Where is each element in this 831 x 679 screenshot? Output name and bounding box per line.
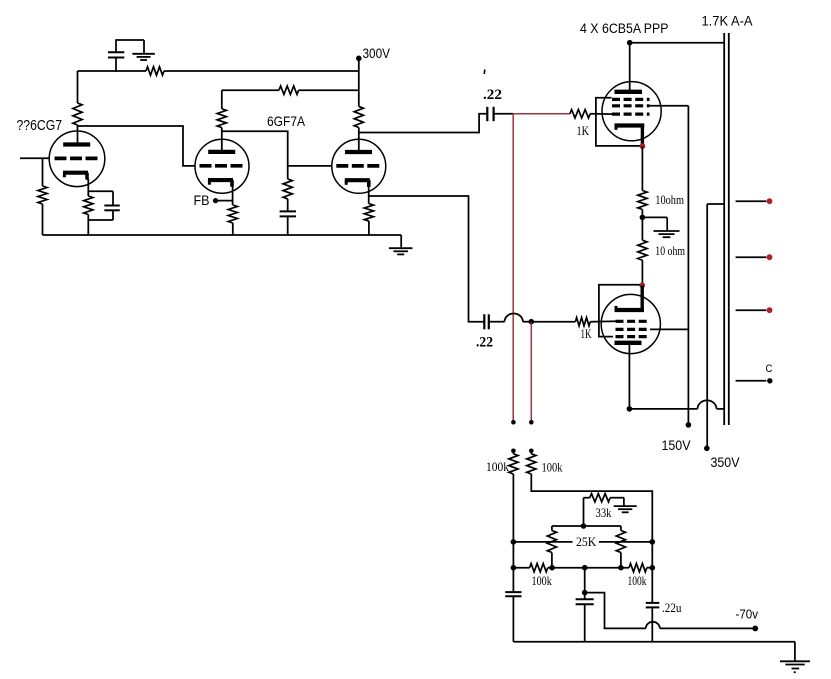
node grid feed 2 [529,420,534,425]
wire V4 beam plates to cathode [596,98,640,146]
tube V4 beam plates [612,98,650,101]
svg-text:100k: 100k [628,574,648,588]
resistor 100k bias left [530,564,548,572]
wire secondary tap 1 [736,200,767,202]
svg-text:1K: 1K [577,123,590,138]
resistor 10ohm upper [638,191,647,210]
wire 33k to wiper [583,498,585,526]
transformer T1 secondary line [728,33,730,425]
tube V2 6GF7A-a cathode [208,178,233,182]
node track right [650,539,656,545]
wire V5 beam plates to cathode [599,285,640,337]
wire V4 screen lead [650,105,689,107]
svg-text:100k: 100k [486,460,510,474]
svg-text:150V: 150V [662,437,692,453]
wire V3 plate to coupling cap C1 [359,114,487,133]
capacitor bias left [505,591,521,593]
node -70v [752,626,758,632]
resistor 100k grid 1 [512,451,514,454]
wire V1 anode lead [77,125,79,145]
svg-text:.22: .22 [483,87,502,103]
tube V4 screen g2 [612,104,650,107]
wire B+ branch to V2 [222,89,279,91]
svg-text:10 ohm: 10 ohm [655,244,685,258]
capacitor B+ filter [115,58,117,72]
transformer T1 primary line [723,33,725,425]
wire 300V vertical [358,58,360,106]
capacitor bias middle [584,568,586,600]
node V5 cathode (red) [639,282,645,288]
wire wiper bar [552,525,621,527]
wire secondary tap 3 [736,309,767,311]
ground (33k) [623,498,625,506]
svg-text:350V: 350V [711,454,741,470]
node tap 3 (red) [767,307,773,313]
svg-text:6GF7A: 6GF7A [267,113,306,129]
wire -70v (with hop) [660,627,755,629]
svg-text:C: C [766,363,773,375]
resistor V1 plate load [77,71,79,103]
svg-text:300V: 300V [363,46,391,61]
wire 100k-2 to right side [531,474,652,603]
tube V5 cathode [641,286,644,311]
wire bias ground rail [513,641,795,643]
tube V2 6GF7A-a grid [200,164,244,168]
wire V1 cathode [86,173,88,181]
wire ground rail [43,234,402,236]
wire C2 to 1K [531,321,575,323]
tube V1 ??6CG7 cathode [63,171,88,175]
tube V5 plate [615,341,642,345]
wire V4 anode [629,43,631,92]
potentiometer 25K right half [616,531,625,553]
resistor V1 grid [38,186,47,204]
wire red C1 out [513,113,570,115]
tube V1 ??6CG7 grid [55,157,99,161]
node -70v feed [582,590,588,596]
resistor B+ branch [279,86,299,94]
wire V4 cathode down [641,146,643,190]
wire V2 anode to divider junction [222,131,332,166]
resistor V2 cathode [228,205,237,223]
svg-text:.22u: .22u [662,601,682,615]
tube V1 ??6CG7 envelope [49,131,105,187]
svg-text:4 X 6CB5A PPP: 4 X 6CB5A PPP [580,21,669,36]
wire C2 out hop over red [505,314,523,322]
tube V2 6GF7A-a envelope [195,139,249,193]
wire screen 150V line [687,106,689,425]
wire V4 anode to transformer [630,42,724,44]
svg-text:10ohm: 10ohm [655,193,684,207]
resistor V3 cathode [364,204,373,221]
svg-text:33k: 33k [596,506,613,520]
node 300V [356,56,362,62]
node C2 out [529,319,535,325]
tube V3 6GF7A-b envelope [332,139,386,193]
node cathode center [640,215,646,221]
svg-text:1.7K A-A: 1.7K A-A [702,13,754,28]
node 100k top 2 [529,449,534,454]
node tap 1 (red) [767,198,773,204]
capacitor C1 .22 [486,107,488,121]
node track left [511,539,517,545]
wire bias bottom line [513,567,529,569]
resistor 10 ohm lower [641,217,643,240]
ground (left rail) [400,235,402,248]
wire V1 anode to V2 grid [78,126,196,166]
tube V4 plate [615,90,643,94]
wire center tap [707,203,724,205]
node bias line junctions [511,565,517,571]
resistor 1K grid stopper lower [575,318,590,326]
svg-text:25K: 25K [576,535,596,549]
wire 25K track [513,541,572,543]
wire input [20,157,50,159]
node 150V [686,422,692,428]
wire V5 anode to transformer (with hop) [629,408,697,410]
node 100k top 1 [511,449,516,454]
wire V3 cathode to coupling cap C2 [369,196,484,322]
ground (top filter) [132,53,155,55]
tube V3 6GF7A-b plate [345,150,372,154]
wire red C2 down [530,322,532,421]
wire secondary tap 2 [736,256,767,258]
node V4 anode [627,40,633,46]
wire V5 anode down [628,343,630,409]
svg-text:.22: .22 [476,335,493,351]
wire filter cap to ground [115,39,144,41]
resistor 1K grid stopper upper [570,110,590,118]
svg-text:100k: 100k [532,574,553,588]
wire V5 screen lead [650,328,688,330]
node tap 2 (red) [767,254,773,260]
resistor V3 plate load [354,106,363,127]
resistor B+ dropper [146,67,164,75]
wire V1 grid down [42,158,44,186]
tube V4 envelope [602,82,661,141]
wire grid resistor to rail [42,204,44,235]
capacitor .22u [646,602,660,604]
svg-text:??6CG7: ??6CG7 [17,118,63,134]
node common [767,378,772,383]
capacitor C2 .22 [483,314,485,329]
potentiometer 25K left half [547,531,556,553]
tube V5 beam plates [616,335,651,338]
tube V5 screen g2 [616,328,651,331]
capacitor V1 cathode bypass [88,190,113,192]
tube V1 ??6CG7 plate [63,142,90,146]
tube V5 envelope [601,294,660,353]
ground (cathode center) [642,216,667,218]
resistor 100k grid 2 [530,451,532,454]
tube V4 cathode [615,123,645,127]
ground (bias rail) [780,660,810,662]
capacitor divider [287,199,289,212]
svg-text:1K: 1K [581,326,592,341]
wire B+ rail top [78,70,147,72]
tube V5 grid g1 [616,320,651,323]
resistor 100k bias right [629,564,647,572]
wire V2 cathode [232,187,234,206]
tube V3 6GF7A-b grid [336,164,380,168]
svg-text:100k: 100k [542,460,564,474]
resistor 33k [584,497,590,499]
wire FB [216,200,233,202]
resistor V2 plate load [221,90,223,109]
svg-text:FB: FB [194,192,210,208]
wire 100k-1 down [512,474,514,592]
node V4 cathode (red) [640,143,646,149]
svg-text:-70v: -70v [736,606,759,621]
node wiper [581,523,587,529]
tube V4 grid g1 [612,112,650,115]
tube V2 6GF7A-a plate [208,150,235,154]
node V5 anode [627,406,633,412]
wire V3 cathode [368,185,370,204]
resistor V1 cathode [84,196,93,215]
resistor divider [287,166,289,179]
node 350V [704,446,710,452]
tube V3 6GF7A-b cathode [345,178,370,182]
node grid feed 1 [511,420,516,425]
